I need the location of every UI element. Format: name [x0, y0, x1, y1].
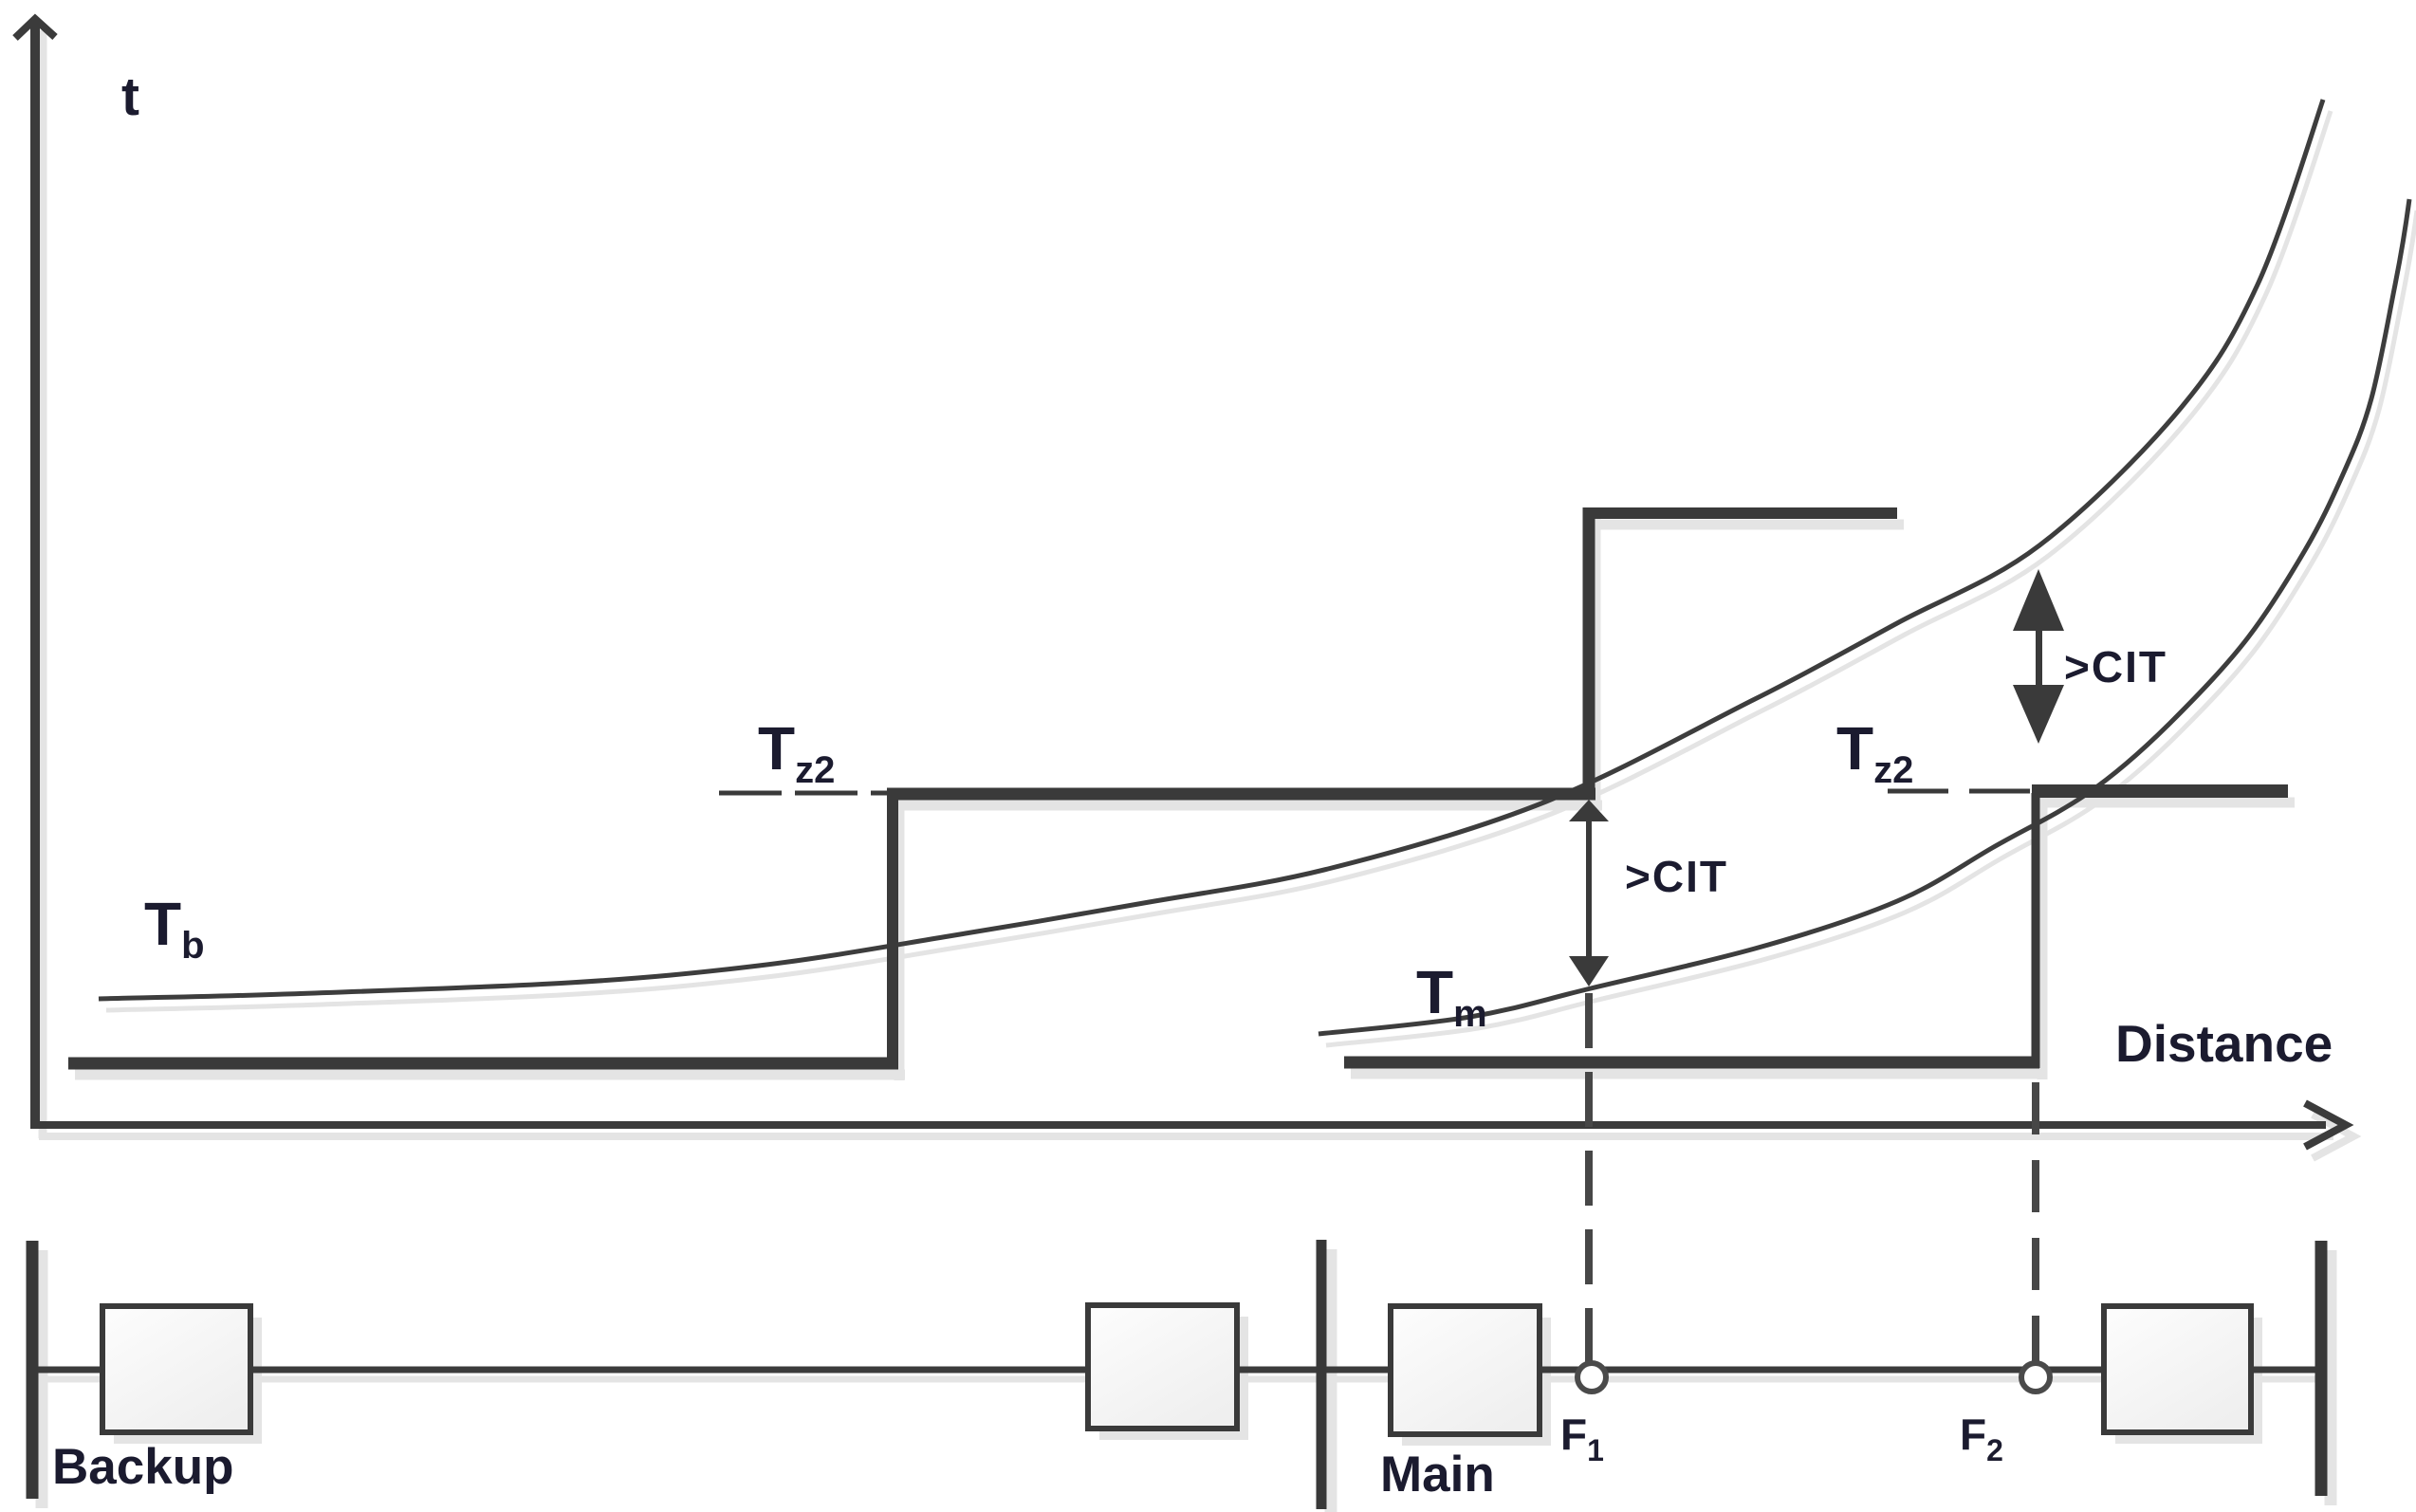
- shadow of backup step line: [75, 519, 1904, 1080]
- CIT double arrow top right: [2013, 569, 2064, 744]
- svg-text:>CIT: >CIT: [2064, 642, 2167, 691]
- shadow of boxes: [114, 1317, 2262, 1446]
- fault point F2: [2021, 1363, 2050, 1392]
- svg-text:Tb: Tb: [144, 890, 205, 967]
- dashed leader right Tz2: [1888, 789, 2032, 794]
- relay box main line end: [2104, 1306, 2251, 1432]
- svg-text:t: t: [121, 66, 139, 127]
- fault point F1: [1577, 1363, 1606, 1392]
- shadow of curve Tm: [1326, 211, 2416, 1045]
- svg-text:Tz2: Tz2: [758, 714, 835, 791]
- busbar right: [2315, 1241, 2328, 1496]
- shadow of main step line: [1351, 802, 2295, 1079]
- dashed fault locator line F1: [1585, 993, 1593, 1363]
- svg-text:Distance: Distance: [2115, 1014, 2333, 1073]
- busbar left: [27, 1241, 39, 1499]
- svg-text:Tz2: Tz2: [1836, 714, 1913, 791]
- shadow of bottom feeder line: [46, 1376, 2323, 1383]
- svg-text:Main: Main: [1380, 1447, 1495, 1503]
- curve Tb (backup overcurrent curve): [99, 100, 2323, 999]
- y-axis arrowhead: [15, 19, 55, 38]
- dashed leader left Tz2: [719, 791, 887, 796]
- relay box main: [1391, 1306, 1540, 1434]
- CIT double arrow at F1: [1569, 800, 1609, 986]
- backup zone2 time line Tz2: [887, 788, 1595, 801]
- bottom feeder line: [38, 1367, 2315, 1374]
- svg-text:F1: F1: [1560, 1410, 1604, 1467]
- x-axis arrowhead: [2305, 1103, 2346, 1147]
- backup zone3 time line: [1583, 507, 1897, 519]
- main zone2 time line Tz2: [2032, 784, 2288, 798]
- backup zone2-zone3 riser at F1: [1583, 507, 1595, 800]
- shadow of busbars: [42, 1249, 2331, 1512]
- svg-text:Backup: Backup: [52, 1439, 233, 1495]
- y-axis: [30, 21, 40, 1129]
- curve Tm (main overcurrent curve): [1319, 199, 2409, 1034]
- busbar middle: [1317, 1240, 1327, 1509]
- dashed fault locator line F2: [2032, 1082, 2039, 1363]
- x-axis: [31, 1121, 2326, 1129]
- backup zone1-zone2 riser: [887, 788, 898, 1069]
- main zone1-zone2 riser at F2: [2032, 793, 2040, 1068]
- main distance relay zone1 line: [1344, 1057, 2039, 1069]
- backup distance relay step characteristic zone1: [68, 1058, 898, 1070]
- shadow of x-axis: [39, 1115, 2353, 1158]
- relay box backup line end: [1088, 1305, 1237, 1429]
- relay box backup: [102, 1306, 250, 1432]
- shadow of y-axis: [39, 30, 47, 1138]
- svg-text:>CIT: >CIT: [1625, 852, 1728, 901]
- svg-text:F2: F2: [1960, 1410, 2003, 1467]
- shadow of curve Tb: [106, 111, 2331, 1010]
- svg-text:Tm: Tm: [1416, 958, 1487, 1035]
